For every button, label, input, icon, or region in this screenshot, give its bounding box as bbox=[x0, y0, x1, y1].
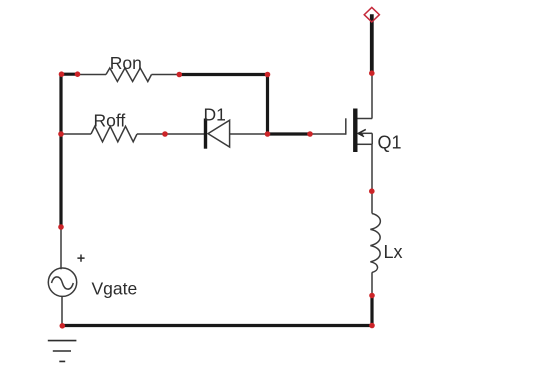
wire: thin lead from bus junction down to Vgate top bbox=[60, 227, 62, 270]
source Vgate sine wave bbox=[52, 277, 74, 289]
wire: thick top horizontal from junction to corner bbox=[179, 73, 269, 76]
svg-text:Roff: Roff bbox=[94, 111, 126, 131]
transistor Q1 arrow head (pointing left into channel) bbox=[358, 129, 366, 136]
svg-text:Ron: Ron bbox=[110, 53, 142, 73]
transistor Q1 body-source connector bbox=[371, 133, 373, 144]
transistor Q1 gate electrode bbox=[345, 118, 347, 134]
wire: thick stub at top-left from corner to Ron wire bbox=[60, 73, 78, 76]
transistor Q1 drain leg bbox=[357, 118, 372, 120]
svg-text:Vgate: Vgate bbox=[92, 279, 138, 299]
wire: thin lead from stub to Ron left terminal bbox=[77, 74, 106, 76]
svg-text:Lx: Lx bbox=[384, 242, 403, 262]
inductor Lx (coil with four scallops) bbox=[370, 214, 380, 273]
wire: thick vertical to bottom rail bbox=[370, 296, 373, 326]
port: diamond terminal at top (red outline) bbox=[364, 7, 379, 22]
wire: thin lead from junction to diode cathode bbox=[165, 133, 204, 135]
junction dot at bottom-left corner bbox=[60, 323, 66, 329]
wire: thick horizontal toward gate bbox=[266, 132, 310, 135]
wire: thin source wire down from Q1 to inductor bbox=[371, 144, 373, 213]
junction dot right end of thick stub bbox=[75, 71, 81, 77]
junction dot at top-left corner bbox=[59, 71, 65, 77]
resistor Roff (zigzag body) bbox=[91, 126, 137, 142]
wire: thin lead from Ron right terminal bbox=[152, 74, 180, 76]
wire: thin lead from Vgate bottom to ground rail bbox=[61, 296, 63, 326]
diode D1 cathode bar bbox=[204, 119, 207, 149]
junction dot on Roff-diode wire bbox=[162, 131, 168, 137]
junction dot at top corner of thick drop bbox=[265, 72, 271, 78]
transistor Q1 body leg with arrow bbox=[359, 132, 373, 134]
junction dot left of Ron thick segment bbox=[177, 72, 183, 78]
wire: thin lead from Roff right terminal to junction dot bbox=[137, 133, 165, 135]
junction dot on bus above Vgate bbox=[58, 224, 64, 230]
wire: thick vertical drop to gate line bbox=[266, 73, 269, 134]
ground symbol (three bars) bbox=[48, 341, 77, 362]
wire: thin lead into MOSFET gate bbox=[310, 133, 346, 135]
wire: thick bottom rail bbox=[62, 324, 374, 327]
junction dot on source wire bbox=[369, 188, 375, 194]
source Vgate plus sign bbox=[77, 255, 84, 262]
svg-text:D1: D1 bbox=[204, 105, 226, 125]
junction dot above bottom-right corner bbox=[369, 293, 375, 299]
wire: thin wire from inductor bottom to junction bbox=[371, 272, 373, 296]
resistor Ron (zigzag body) bbox=[106, 68, 152, 82]
junction dot below top port wire bbox=[369, 70, 375, 76]
transistor Q1 channel bar (thick vertical) bbox=[353, 109, 357, 153]
transistor Q1 source leg bbox=[357, 143, 372, 145]
svg-text:Q1: Q1 bbox=[378, 132, 402, 152]
junction dot at bottom of thick drop bbox=[265, 131, 271, 137]
wire: thin lead from diode anode to thick gate net bbox=[230, 133, 266, 135]
junction dot on gate net bbox=[307, 131, 313, 137]
wire: thin lead from bus to Roff left terminal bbox=[62, 133, 91, 135]
source Vgate circle bbox=[48, 268, 76, 296]
wire: thick wire from top port down to drain junction bbox=[370, 14, 374, 73]
wire: thin drain wire up from Q1 bbox=[371, 74, 373, 119]
wire: left vertical bus (thick) from top-left corner down to Vgate bbox=[59, 73, 62, 227]
junction dot on bus at Roff bbox=[58, 131, 64, 137]
junction dot at bottom-right corner bbox=[369, 323, 375, 329]
diode D1 triangle (anode, pointing left) bbox=[208, 120, 230, 147]
